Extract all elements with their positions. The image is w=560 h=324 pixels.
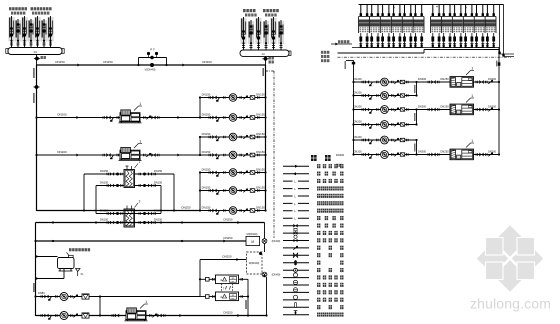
- svg-text:7: 7: [223, 287, 225, 291]
- header A riser 5 with rotated pipe label and shut-off valve: [34, 16, 40, 48]
- svg-text:M(DN40): M(DN40): [249, 261, 260, 265]
- HX1 fittings right: [139, 181, 163, 188]
- bracket junctions: [199, 96, 201, 211]
- svg-text:DN150: DN150: [256, 92, 265, 96]
- svg-text:DN150: DN150: [202, 132, 211, 136]
- svg-text:1: 1: [471, 66, 473, 70]
- svg-text:DN150: DN150: [100, 169, 109, 173]
- svg-text:DN200: DN200: [488, 104, 497, 108]
- riser group A top labels row 2: [31, 7, 52, 10]
- cooling water collector line A: [352, 47, 499, 49]
- cooling water pump row 5: [352, 135, 416, 144]
- legend row: 去冷却塔: [283, 172, 344, 176]
- cooling tower group 2 (6 cells): [431, 5, 497, 48]
- HX2 fittings left: [100, 218, 122, 225]
- HX2 fittings left: [100, 209, 122, 216]
- svg-text:M: M: [251, 240, 254, 244]
- header B riser 1 with rotated label and valve: [240, 17, 246, 50]
- control signal stub: [266, 70, 275, 72]
- HX1 label: [135, 160, 141, 168]
- header A riser 6 with rotated pipe label and shut-off valve: [41, 19, 47, 48]
- tank interconnect dashed: [222, 284, 233, 292]
- svg-text:DN250: DN250: [223, 255, 232, 259]
- svg-text:DN150: DN150: [202, 112, 211, 116]
- svg-text:DN150: DN150: [202, 150, 211, 154]
- svg-text:2: 2: [139, 200, 141, 204]
- legend row: 截止阀: [283, 253, 344, 257]
- water collector header A (分水器): [6, 48, 64, 55]
- svg-text:1: 1: [145, 300, 147, 304]
- header A riser 4 with rotated pipe label and shut-off valve: [28, 19, 34, 48]
- header A riser 7 with rotated pipe label and shut-off valve: [47, 16, 53, 48]
- flow arrow: [77, 64, 80, 67]
- legend row: 冷冻水回水管道: [283, 194, 344, 199]
- header B outlet labels: [269, 57, 274, 60]
- svg-text:P T: P T: [150, 48, 155, 52]
- heat exchanger HX2: [124, 209, 135, 227]
- header B riser 6 with rotated label and valve: [278, 20, 284, 50]
- legend row: 电动开关阀: [283, 228, 344, 235]
- cooling water pump row 1: [352, 77, 416, 86]
- bypass loop pipe: [139, 58, 167, 66]
- header A riser 3 with rotated pipe label and shut-off valve: [21, 16, 27, 48]
- cooling water pump row 6: [352, 149, 416, 158]
- svg-text:DN80: DN80: [38, 291, 45, 295]
- svg-text:1: 1: [139, 160, 141, 164]
- water collector header B (集水器): [240, 50, 291, 56]
- legend row: 冷冻水供水管道: [283, 186, 344, 191]
- note label: [336, 164, 342, 167]
- tank left vertical: [199, 260, 201, 297]
- HX1 fittings left: [100, 169, 122, 176]
- legend row: 冷却水供水管道: [283, 201, 344, 206]
- chiller unit 3 row: [417, 139, 501, 160]
- svg-text:1: 1: [139, 139, 141, 143]
- secondary chw pump row 3: [200, 132, 267, 141]
- svg-text:M(DN40): M(DN40): [247, 232, 258, 236]
- watermark logo: [476, 225, 544, 293]
- flow arrow: [182, 64, 185, 67]
- legend row: 蝶阀: [283, 260, 344, 265]
- legend row: 止回阀: [283, 246, 344, 250]
- motorized valve dashed box: [247, 252, 263, 274]
- svg-text:DN250: DN250: [224, 236, 233, 240]
- svg-text:DN250: DN250: [103, 60, 113, 64]
- svg-text:DN150: DN150: [256, 205, 265, 209]
- right main vertical pipe: [265, 65, 267, 211]
- header A outlet labels: [41, 56, 46, 59]
- balance valve: [262, 239, 267, 244]
- svg-text:DN150: DN150: [256, 112, 265, 116]
- svg-text:DN150: DN150: [202, 185, 211, 189]
- bottom main pipe: [36, 312, 267, 320]
- svg-text:zhulong.com: zhulong.com: [470, 296, 551, 312]
- control signal vertical (dash-dot): [273, 71, 275, 238]
- svg-text:DN200: DN200: [353, 90, 362, 94]
- rotated label DN: [263, 68, 264, 76]
- svg-text:DN150: DN150: [202, 205, 211, 209]
- svg-text:DN150: DN150: [256, 167, 265, 171]
- svg-text:DN250: DN250: [55, 60, 65, 64]
- left return vertical: [34, 223, 36, 317]
- legend row: 乙二醇管道: [283, 179, 344, 184]
- cooling water collector line B: [338, 50, 500, 54]
- junction: [165, 64, 167, 66]
- HX2 top stubs: [127, 206, 132, 210]
- header B outlet labels 2: [269, 61, 274, 64]
- tank supply line: [200, 255, 247, 262]
- rotated label DN32: [33, 283, 34, 292]
- svg-text:14: 14: [33, 50, 37, 54]
- makeup water pump row upper: [34, 291, 200, 301]
- legend row: 来自冷却塔: [283, 164, 344, 168]
- legend row: 冷却水回水管道: [283, 209, 344, 214]
- svg-text:DN200: DN200: [353, 119, 362, 123]
- svg-text:14: 14: [261, 52, 265, 56]
- HX1 fittings right: [139, 169, 163, 176]
- svg-text:DN150: DN150: [202, 92, 211, 96]
- main riser valve: [33, 85, 39, 89]
- svg-text:DN250: DN250: [440, 104, 449, 108]
- svg-text:#: #: [393, 6, 395, 10]
- rotated label DN300: [33, 93, 34, 103]
- legend row: 流量传感器: [283, 280, 344, 287]
- svg-text:V(DN40): V(DN40): [145, 68, 156, 72]
- chilled water return main 1: [37, 206, 201, 212]
- primary chw pump row 1: [200, 167, 267, 176]
- left pipe labels: [321, 51, 329, 62]
- secondary chw pump row 2: [200, 112, 267, 121]
- chilled water return main 3: [36, 236, 247, 243]
- svg-text:DN150: DN150: [256, 132, 265, 136]
- drain funnel: [76, 269, 85, 277]
- legend row: 压力表: [283, 303, 344, 310]
- HX2 fittings right: [139, 209, 163, 216]
- cooling water control line (dash-dot): [338, 56, 512, 58]
- legend title 图例: [311, 155, 331, 161]
- legend row: 压差传感器: [283, 295, 344, 302]
- svg-text:DN200: DN200: [353, 149, 362, 153]
- svg-text:DN250: DN250: [224, 218, 233, 222]
- legend row: 自来水管: [283, 216, 344, 221]
- svg-text:DN250: DN250: [224, 311, 233, 315]
- svg-text:DN200: DN200: [57, 150, 67, 154]
- svg-text:DN150: DN150: [154, 218, 163, 222]
- HX2 mid row: [96, 213, 161, 215]
- svg-text:1: 1: [471, 94, 473, 98]
- header B riser 2 with rotated label and valve: [248, 20, 254, 50]
- cooling right rail: [498, 48, 501, 155]
- heat exchanger HX1: [124, 170, 135, 188]
- right feeder pipes: [496, 5, 514, 67]
- svg-text:(DN40): (DN40): [272, 239, 281, 243]
- chiller unit 2 row: [417, 94, 501, 115]
- bypass pressure/temp sensors: [147, 48, 158, 58]
- riser group B top labels row 3: [245, 14, 257, 17]
- legend row: 全自动排气阀门: [283, 311, 344, 317]
- cooling water pump row 4: [352, 119, 416, 128]
- cooling water pump row 3: [352, 104, 416, 113]
- riser group A top labels row 3: [11, 12, 25, 15]
- cooling water pump row 2: [352, 90, 416, 99]
- junction: [52, 221, 54, 223]
- svg-text:DN200: DN200: [488, 149, 497, 153]
- chiller unit 1 row: [417, 66, 501, 87]
- svg-text:DN150: DN150: [154, 169, 163, 173]
- svg-text:#: #: [465, 6, 467, 10]
- cooling bracket 3-4: [414, 108, 417, 125]
- main top supply pipe: [37, 64, 266, 66]
- bypass balance valve 2: [262, 272, 267, 277]
- bottom main labels: [179, 311, 267, 318]
- pressurization unit label: [67, 248, 91, 255]
- tank 2 left piping: [200, 295, 216, 299]
- legend row: 手动蝶阀: [283, 224, 344, 228]
- makeup branch line: [35, 255, 57, 257]
- header A riser 1 with rotated pipe label and shut-off valve: [8, 16, 14, 48]
- svg-text:DN250: DN250: [440, 149, 449, 153]
- HX2 label: [135, 200, 141, 208]
- chilled water pump unit row 1: [35, 102, 200, 123]
- header B riser 3 with rotated label and valve: [255, 17, 261, 50]
- chilled water pump unit row 2: [35, 139, 200, 160]
- rotated label DN250: [33, 68, 34, 78]
- junction: [137, 64, 139, 66]
- HX2 fittings right: [139, 218, 163, 225]
- pipe: header A down to main: [36, 55, 38, 66]
- cooling bracket 1-2: [414, 81, 417, 97]
- pump row bracket 5-7: [199, 173, 201, 211]
- cooling tower group 1 (6 cells): [359, 5, 425, 48]
- hx loop outer row: [84, 174, 174, 211]
- makeup row interconnect: [99, 297, 101, 316]
- svg-text:DN250: DN250: [182, 206, 191, 210]
- primary chw pump row 3: [200, 205, 267, 214]
- svg-text:DN150: DN150: [100, 181, 109, 185]
- svg-text:DN300: DN300: [418, 149, 427, 153]
- riser group A top labels row 1: [9, 7, 27, 10]
- bypass valve on main: [149, 63, 155, 67]
- cooling left rail: [345, 61, 356, 155]
- svg-text:1: 1: [139, 102, 141, 106]
- makeup water inlet: [331, 40, 352, 45]
- pump row bracket 3-4: [199, 137, 201, 155]
- primary chw pump row 2: [200, 185, 267, 194]
- riser group A top labels row 4: [32, 12, 49, 15]
- header B riser 5 with rotated label and valve: [270, 17, 276, 50]
- svg-text:DN200: DN200: [353, 104, 362, 108]
- svg-text:DN300: DN300: [418, 104, 427, 108]
- svg-text:DN200: DN200: [57, 112, 67, 116]
- bypass down vertical: [265, 275, 267, 317]
- svg-text:1: 1: [471, 139, 473, 143]
- tank right vertical: [245, 279, 248, 316]
- svg-text:(DN40): (DN40): [272, 273, 281, 277]
- expansion/collection tank 1: [216, 275, 239, 284]
- svg-text:DN250: DN250: [440, 77, 449, 81]
- riser group B top labels row 2: [263, 9, 279, 12]
- bottom main pump unit: [112, 300, 165, 321]
- header A riser 2 with rotated pipe label and shut-off valve: [15, 19, 21, 48]
- secondary chw pump row 1: [200, 92, 267, 101]
- riser group B top labels row 4: [265, 14, 277, 17]
- legend row: 软接头: [283, 268, 344, 272]
- legend row: 电动调节阀: [283, 235, 344, 242]
- left main vertical pipe: [36, 65, 38, 211]
- svg-text:DN200: DN200: [488, 77, 497, 81]
- header A outlet valve: [34, 57, 40, 61]
- legend row: 温度传感器: [283, 273, 344, 280]
- chilled water return main 2: [36, 218, 265, 225]
- pump row bracket 1-2: [199, 98, 201, 118]
- cooling tower supply top main: [359, 4, 504, 6]
- hx loop inner row: [96, 186, 161, 214]
- svg-text:DN200: DN200: [353, 135, 362, 139]
- legend row: 压力传感器: [283, 288, 344, 295]
- svg-text:DN300: DN300: [202, 60, 212, 64]
- tank 1 left piping: [199, 278, 216, 282]
- HX1 top stubs: [126, 166, 132, 170]
- svg-text:DN200: DN200: [336, 153, 345, 157]
- svg-text:XL: XL: [80, 273, 84, 276]
- svg-text:DN150: DN150: [154, 181, 163, 185]
- tank 1 right piping: [239, 278, 249, 281]
- bypass loop valve: [149, 56, 155, 60]
- svg-text:DN150: DN150: [100, 218, 109, 222]
- cooling bracket 5-6: [414, 139, 417, 156]
- svg-text:DN150: DN150: [256, 185, 265, 189]
- header B outlet valve: [262, 57, 268, 61]
- header B riser 4 with rotated label and valve: [263, 20, 269, 50]
- bypass right vertical: [264, 223, 266, 253]
- svg-text:#: #: [436, 5, 438, 9]
- pressurization tank unit: [58, 255, 75, 271]
- svg-text:DN300: DN300: [418, 77, 427, 81]
- pipe: header B to main: [265, 56, 267, 65]
- riser group B top labels row 1: [243, 9, 256, 12]
- tank 2 right piping: [239, 295, 250, 298]
- secondary chw pump row 4: [200, 150, 267, 159]
- svg-text:DN150: DN150: [202, 167, 211, 171]
- expansion/collection tank 2: [216, 292, 239, 301]
- diff-pressure bypass valve box: [246, 236, 260, 245]
- svg-text:DN150: DN150: [256, 150, 265, 154]
- HX1 fittings left: [100, 181, 122, 188]
- svg-text:DN200: DN200: [353, 77, 362, 81]
- makeup return pipe: [35, 269, 64, 280]
